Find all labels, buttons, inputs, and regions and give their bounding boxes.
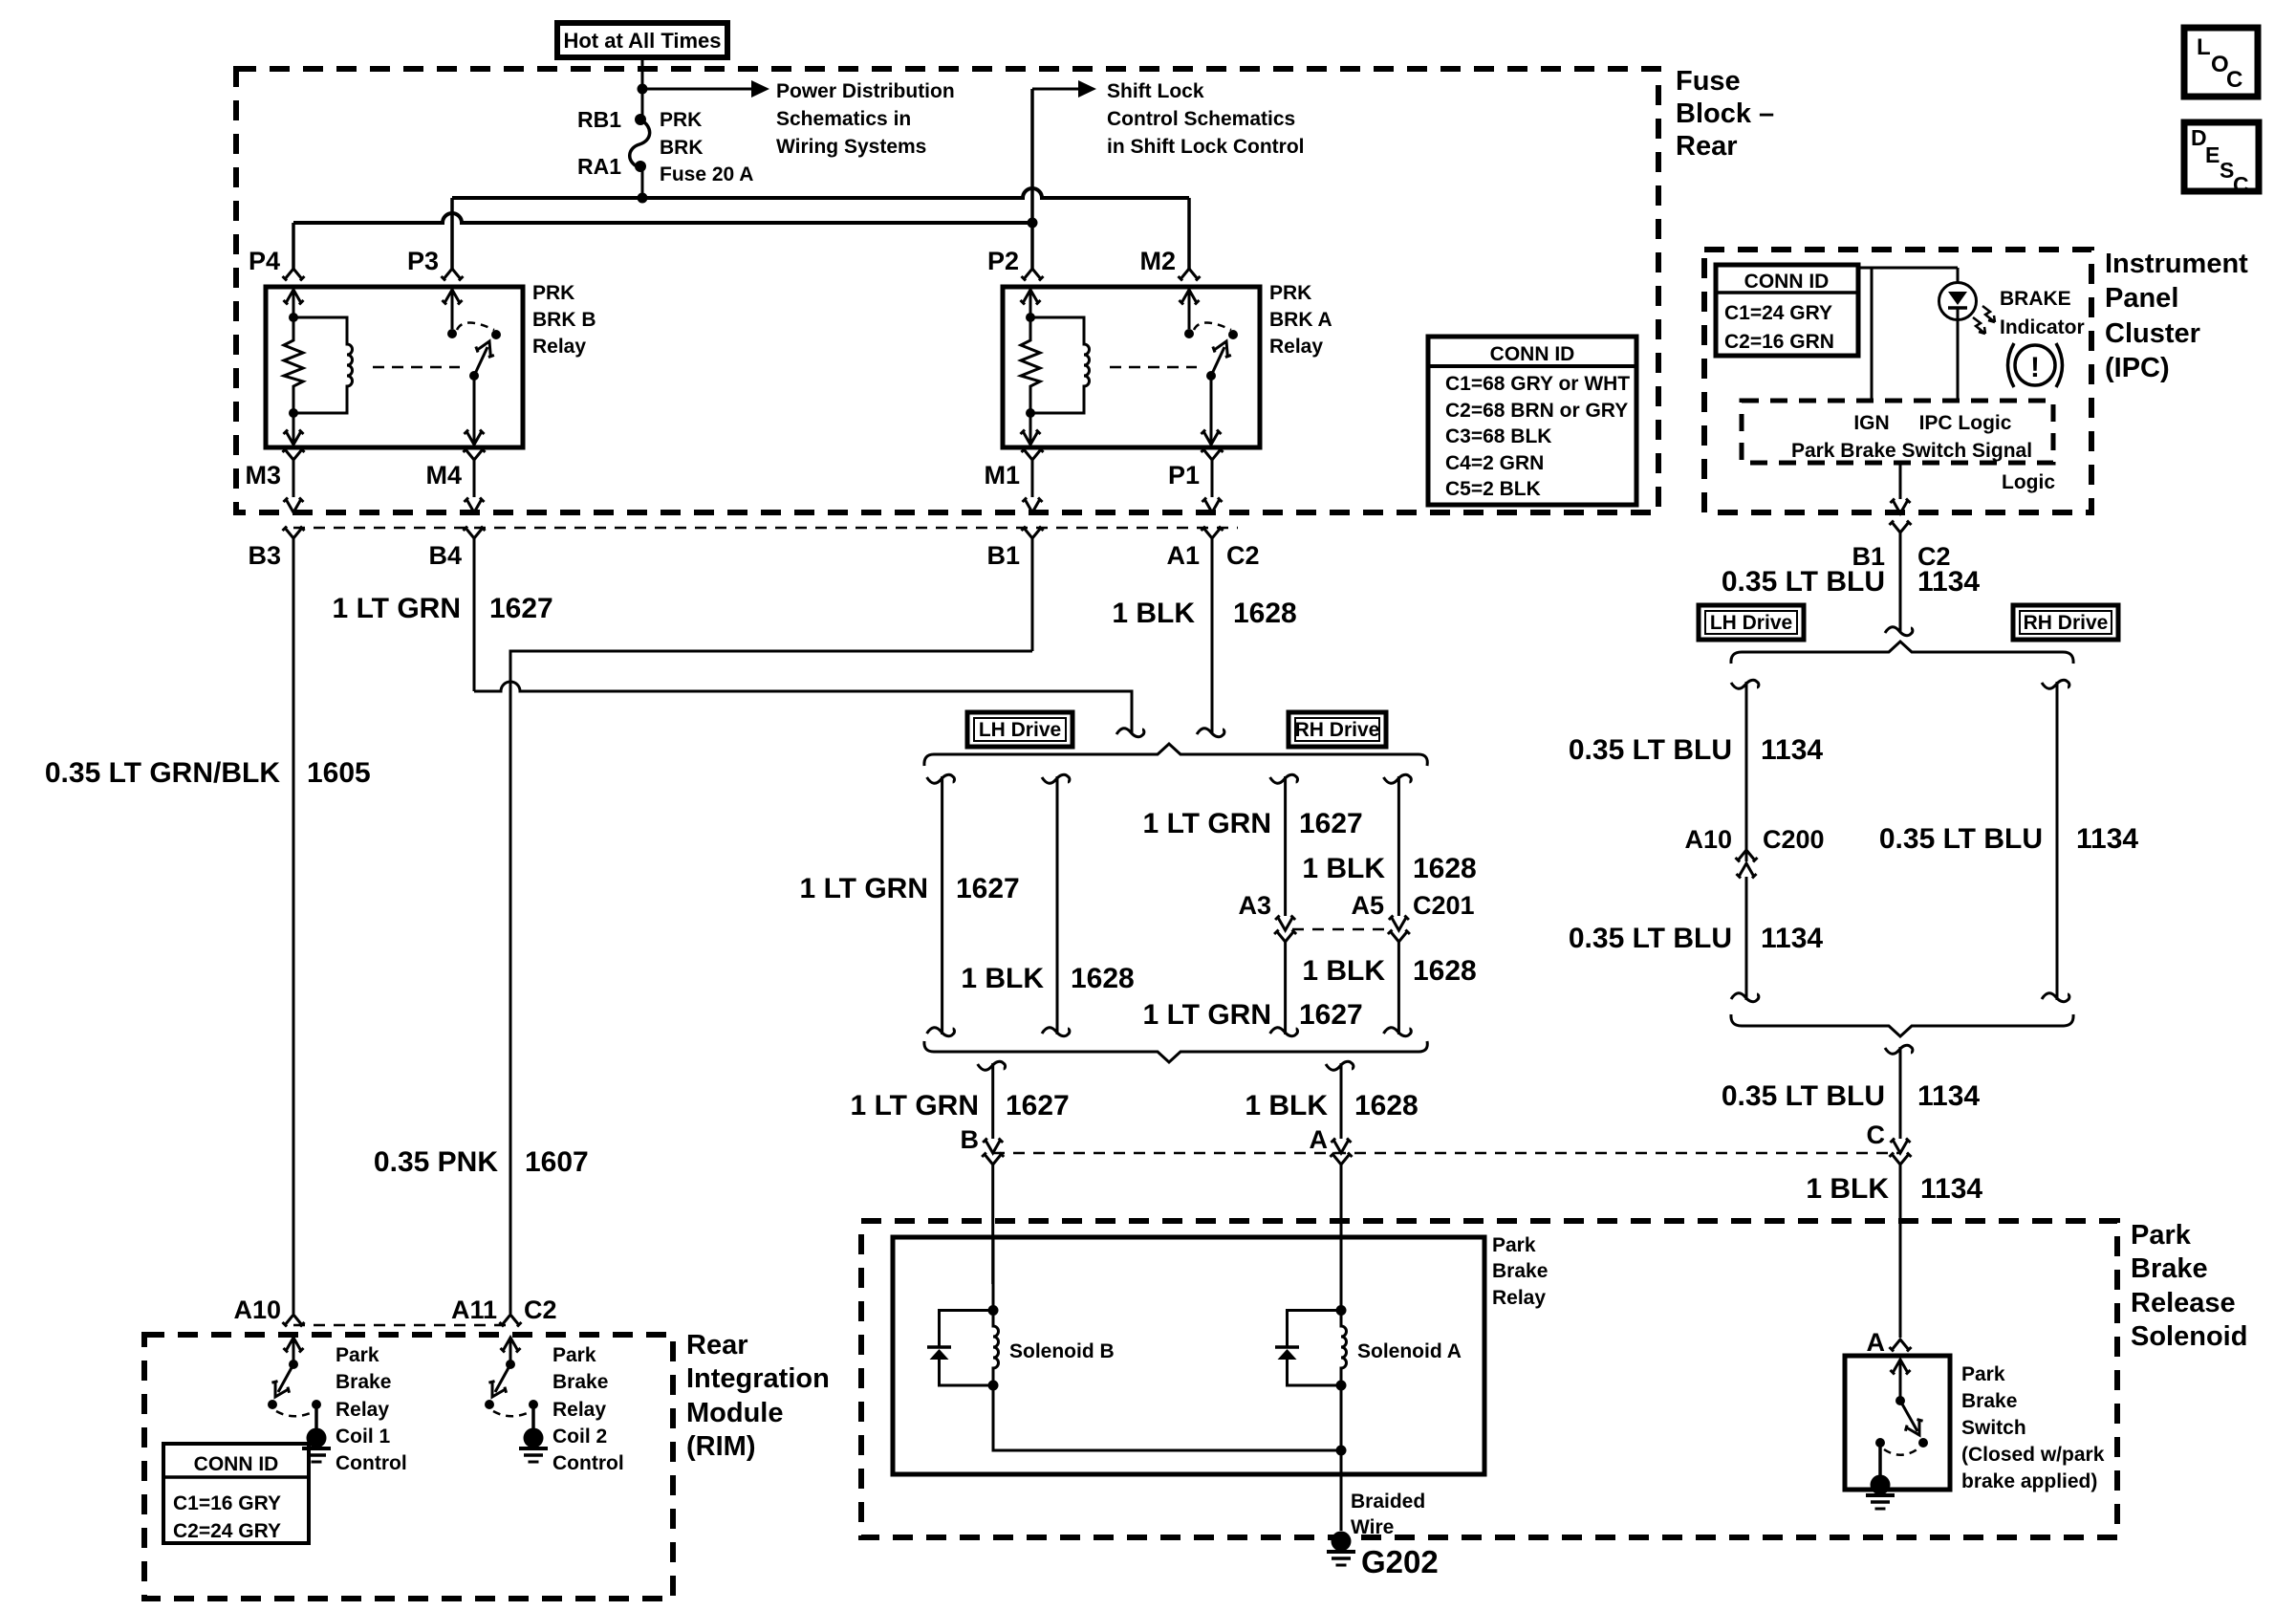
svg-text:Relay: Relay [336,1399,389,1421]
splice output B wire 1627 [978,1061,1006,1070]
svg-text:1628: 1628 [1071,963,1135,994]
svg-text:1627: 1627 [1299,808,1363,839]
svg-text:B: B [961,1125,980,1154]
svg-text:Module: Module [686,1398,784,1428]
svg-text:Shift Lock: Shift Lock [1107,80,1204,102]
connector B1 [1022,527,1044,539]
svg-text:Release: Release [2131,1288,2236,1318]
connector P2 [1022,269,1044,281]
svg-text:0.35 PNK: 0.35 PNK [374,1146,498,1178]
relay PRK BRK B fixed contact [447,329,457,338]
svg-text:RH Drive: RH Drive [1295,719,1380,741]
wire: hot feed down from Hot at All Times [641,57,644,117]
svg-text:1134: 1134 [1917,1080,1980,1112]
svg-text:1 LT GRN: 1 LT GRN [1143,999,1271,1031]
connector B4 [464,527,486,539]
relay PRK BRK A armature link (dashed) [1110,366,1197,369]
svg-text:C2=68 BRN or GRY: C2=68 BRN or GRY [1445,400,1628,422]
wire 1627: B4 down [473,538,476,691]
svg-text:1 LT GRN: 1 LT GRN [1143,808,1271,839]
svg-text:CONN ID: CONN ID [1490,343,1575,365]
svg-text:L: L [2197,34,2211,60]
svg-text:C2=16 GRN: C2=16 GRN [1724,331,1834,353]
svg-text:C1=68 GRY or WHT: C1=68 GRY or WHT [1445,373,1630,395]
connector M1 [1022,448,1044,461]
svg-text:(Closed w/park: (Closed w/park [1961,1444,2105,1466]
svg-text:A5: A5 [1351,891,1384,920]
relay PRK BRK B arm pivot [469,371,479,381]
connector M2 [1179,269,1201,281]
svg-text:Brake: Brake [336,1371,391,1393]
right splice wire RH 1134 [2042,680,2069,688]
svg-text:1 LT GRN: 1 LT GRN [851,1090,979,1121]
wire: lamp to IPC logic [1957,308,1960,401]
svg-text:1627: 1627 [1006,1090,1070,1121]
svg-text:LH Drive: LH Drive [1710,612,1792,634]
wire 1628: P1 down to RH splice feed [1211,538,1214,734]
svg-text:BRAKE: BRAKE [2000,288,2071,310]
svg-text:Fuse: Fuse [1676,66,1741,97]
svg-text:Brake: Brake [2131,1253,2208,1284]
svg-text:0.35 LT BLU: 0.35 LT BLU [1722,566,1885,598]
svg-text:RH Drive: RH Drive [2024,612,2109,634]
relay PRK BRK A coil-side exit pin [1021,430,1041,446]
svg-text:1627: 1627 [489,593,553,624]
right splice top brace [1742,642,2063,652]
wire 1627: B4 across to LH splice feed [474,682,1132,734]
svg-text:!: ! [2030,352,2040,383]
svg-text:1 BLK: 1 BLK [1302,955,1385,987]
splice wire seg LH 1628 [1042,774,1070,783]
wire: IPC internal feed [1858,267,1958,270]
relay PRK BRK A contact-side entry pin [1180,290,1200,305]
fuse RB1 terminal [635,114,646,125]
svg-text:P3: P3 [407,247,439,275]
svg-text:Relay: Relay [532,336,586,358]
park brake switch arm [1900,1401,1917,1431]
connector B3 [283,527,305,539]
svg-text:A11: A11 [451,1295,497,1324]
RH Drive variant box (right) [2013,605,2118,640]
svg-text:B4: B4 [428,541,462,570]
CONN ID table (IPC) [1716,265,1858,356]
wire: fuse output down [641,165,644,198]
wire 1134: C down to park brake switch [1885,1045,1913,1054]
svg-text:C1=16 GRY: C1=16 GRY [173,1492,281,1514]
svg-text:Wire: Wire [1351,1516,1394,1538]
wire 1607: B1 down [1031,538,1034,651]
svg-text:Braided: Braided [1351,1491,1425,1513]
relay PRK BRK A fixed contact [1184,329,1194,338]
svg-text:Rear: Rear [1676,131,1738,162]
svg-text:1134: 1134 [1917,566,1980,598]
CONN ID table (fuse block rear) [1428,337,1636,505]
wire 1605: B3 to RIM A10 [292,538,295,1314]
connector P4 [283,269,305,281]
svg-text:RB1: RB1 [577,107,621,132]
svg-text:A3: A3 [1238,891,1271,920]
relay PRK BRK A coil-side entry pin [1021,290,1041,305]
svg-text:C2: C2 [1226,541,1260,570]
splice wire seg LH 1627 [927,774,955,783]
svg-text:IPC Logic: IPC Logic [1919,412,2012,434]
relay PRK BRK A contact-side exit pin [1202,430,1222,446]
relay PRK BRK B NO contact [491,330,501,339]
svg-text:C2=24 GRY: C2=24 GRY [173,1520,281,1542]
wire: braided ground wire [1340,1385,1343,1531]
svg-text:Park: Park [336,1344,379,1366]
svg-text:Hot at All Times: Hot at All Times [563,29,721,53]
svg-text:PRK: PRK [1269,282,1311,304]
svg-text:Brake: Brake [552,1371,608,1393]
svg-text:P1: P1 [1168,461,1200,490]
svg-text:A: A [1310,1125,1329,1154]
Instrument Panel Cluster dashed boundary [1704,250,2091,512]
svg-text:C: C [2226,67,2242,93]
svg-text:0.35 LT GRN/BLK: 0.35 LT GRN/BLK [45,757,280,789]
svg-text:1134: 1134 [1920,1173,1982,1205]
svg-text:Integration: Integration [686,1363,830,1394]
svg-text:M3: M3 [245,461,281,490]
RH Drive variant box (center) [1289,712,1386,747]
node: hot feed junction [638,84,648,95]
splice group top brace [934,744,1419,754]
svg-text:Switch: Switch [1961,1417,2026,1439]
svg-text:Brake: Brake [1961,1390,2017,1412]
svg-text:1 BLK: 1 BLK [1302,853,1385,884]
svg-text:Solenoid A: Solenoid A [1357,1340,1462,1362]
relay PRK BRK B contact-side entry pin [443,290,463,305]
fuse RA1 terminal [635,161,646,172]
DESC reference box [2184,122,2259,191]
svg-text:1627: 1627 [956,873,1020,904]
node: line2 meets shift-lock vertical [1028,218,1038,229]
wire: park brake switch signal out [1899,463,1902,499]
relay PRK BRK B coil top node [289,313,298,322]
svg-text:Block –: Block – [1676,98,1774,129]
flyback diode (Solenoid A) [1288,1311,1342,1347]
connector A1 [1202,527,1224,539]
svg-text:Solenoid B: Solenoid B [1009,1340,1115,1362]
svg-text:0.35 LT BLU: 0.35 LT BLU [1569,923,1732,954]
park brake relay coil 2 control switch [501,1338,521,1353]
relay PRK BRK A coil top node [1026,313,1035,322]
relay PRK BRK A coil bottom node [1026,408,1035,418]
connector A11 C2 [500,1315,522,1327]
svg-text:BRK B: BRK B [532,309,596,331]
LOC reference box [2184,28,2258,97]
connector M4 [464,448,486,461]
splice wire seg RH 1627 through C201 A3 [1270,774,1298,783]
wire: drop to P4 [292,223,295,269]
connector P3 [442,269,464,281]
wire 1607: across and down to RIM A11 [510,651,1032,1314]
svg-text:Coil 2: Coil 2 [552,1426,607,1448]
relay PRK BRK A coil [1030,317,1090,413]
relay PRK BRK B coil-side entry pin [284,290,304,305]
svg-text:1 BLK: 1 BLK [1112,598,1195,629]
power label box: Hot at All Times [557,23,727,57]
relay PRK BRK B box [266,287,523,447]
svg-text:BRK A: BRK A [1269,309,1332,331]
svg-text:Rear: Rear [686,1330,748,1361]
relay PRK BRK B contact travel (dashed) [457,323,494,331]
svg-text:Park: Park [2131,1220,2192,1251]
fuse PRK BRK 20A element [630,120,650,167]
svg-text:A1: A1 [1166,541,1200,570]
svg-text:PRK: PRK [660,109,702,131]
relay PRK BRK A NO contact [1228,330,1238,339]
svg-text:0.35 LT BLU: 0.35 LT BLU [1722,1080,1885,1112]
svg-text:1 BLK: 1 BLK [1806,1173,1889,1205]
park brake switch input pin [1891,1360,1911,1375]
Rear Integration Module dashed boundary [144,1335,673,1599]
indicator light rays [1982,306,1995,322]
svg-text:CONN ID: CONN ID [194,1453,279,1475]
svg-text:G202: G202 [1361,1544,1439,1579]
node: solenoid common [1336,1446,1347,1456]
wire: shift-lock vertical through hop to P2 [1030,89,1034,269]
svg-text:Panel: Panel [2105,283,2178,314]
svg-text:Fuse 20 A: Fuse 20 A [660,163,753,185]
svg-text:Solenoid: Solenoid [2131,1321,2247,1352]
svg-text:1134: 1134 [1761,734,1823,766]
svg-text:Park: Park [1492,1234,1536,1256]
splice feed tail (RH) [1197,729,1224,737]
relay PRK BRK A resistor [1021,317,1040,413]
wire: branch to Power Distribution schematics [642,88,751,91]
splice output A wire 1628 [1326,1061,1354,1070]
relay PRK BRK B coil-side exit pin [284,430,304,446]
svg-text:C: C [2233,172,2249,197]
svg-text:E: E [2205,142,2220,167]
switch internal ground [1866,1475,1895,1510]
svg-text:A10: A10 [1684,825,1732,854]
Park Brake Release Solenoid dashed boundary [861,1221,2117,1537]
svg-text:A10: A10 [233,1295,281,1324]
wire: drop to P3 [450,198,454,269]
svg-text:1628: 1628 [1354,1090,1419,1121]
svg-text:Logic: Logic [2002,471,2055,493]
svg-text:M2: M2 [1139,247,1176,275]
splice group bottom brace [934,1052,1419,1062]
relay PRK BRK A switch arm [1211,347,1224,376]
relay PRK BRK B contact-side exit pin [465,430,485,446]
right splice bottom brace [1742,1026,2063,1036]
svg-text:Schematics in: Schematics in [776,108,911,130]
wire bus line1: fuse to P3 and M2 [452,188,1189,198]
connector face line (RIM C2) [293,1324,510,1327]
wire: solenoid commons joined [993,1385,1341,1450]
park brake switch pivot [1895,1396,1905,1405]
svg-text:LH Drive: LH Drive [979,719,1061,741]
relay PRK BRK B coil bottom node [289,408,298,418]
svg-text:in Shift Lock Control: in Shift Lock Control [1107,136,1304,158]
connector M3 [283,448,305,461]
svg-text:Park Brake Switch Signal: Park Brake Switch Signal [1791,440,2032,462]
wire bus line2: P4 to P2/shift-lock branch [293,213,1029,223]
connector face line C201 (dashed) [1292,928,1392,931]
svg-text:1 BLK: 1 BLK [961,963,1044,994]
IPC logic dashed box [1742,401,2053,463]
connector A10 [283,1315,305,1327]
Park Brake Relay solid box [893,1237,1484,1474]
svg-text:C2: C2 [524,1295,557,1324]
solenoid Solenoid B [992,1237,995,1310]
CONN ID table (RIM) [163,1444,309,1543]
connector face line (park brake relay) [993,1152,1900,1155]
switch travel (dashed) [1884,1448,1918,1455]
Fuse Block - Rear dashed boundary [236,69,1658,512]
svg-text:1 LT GRN: 1 LT GRN [800,873,928,904]
svg-text:C: C [1867,1121,1886,1149]
svg-text:0.35 LT BLU: 0.35 LT BLU [1879,823,2043,855]
svg-text:Instrument: Instrument [2105,249,2248,279]
svg-text:Coil 1: Coil 1 [336,1426,390,1448]
Park Brake Switch box [1845,1356,1950,1490]
svg-text:Relay: Relay [1492,1287,1546,1309]
svg-text:M1: M1 [984,461,1020,490]
svg-text:C3=68 BLK: C3=68 BLK [1445,425,1551,447]
relay PRK BRK B coil [293,317,353,413]
LH Drive variant box (right) [1699,605,1804,640]
right splice wire LH 1134 through C200 A10 [1731,680,1759,688]
svg-text:1 LT GRN: 1 LT GRN [333,593,461,624]
svg-text:1627: 1627 [1299,999,1363,1031]
svg-text:B1: B1 [986,541,1020,570]
svg-text:C201: C201 [1413,891,1475,920]
park brake relay coil 1 control switch [284,1338,304,1353]
svg-text:Park: Park [552,1344,596,1366]
node: fuse output on bus line 1 [638,193,648,204]
splice feed tail (LH) [1116,729,1144,737]
svg-text:Cluster: Cluster [2105,318,2200,349]
svg-text:Indicator: Indicator [2000,316,2085,338]
connector A (park brake switch) [1890,1339,1912,1352]
svg-text:P2: P2 [987,247,1019,275]
svg-text:BRK: BRK [660,137,704,159]
svg-text:brake applied): brake applied) [1961,1470,2097,1492]
svg-text:Relay: Relay [552,1399,606,1421]
svg-text:1 BLK: 1 BLK [1245,1090,1328,1121]
svg-text:C4=2 GRN: C4=2 GRN [1445,452,1544,474]
wire: IGN feed [1871,268,1874,401]
svg-text:1628: 1628 [1413,853,1477,884]
svg-text:Control Schematics: Control Schematics [1107,108,1295,130]
relay PRK BRK A arm pivot [1206,371,1216,381]
svg-text:Brake: Brake [1492,1260,1548,1282]
svg-text:Wiring Systems: Wiring Systems [776,136,926,158]
svg-text:Control: Control [336,1452,407,1474]
svg-text:A: A [1867,1328,1886,1357]
BRAKE indicator LED [1939,283,1977,320]
svg-text:Power Distribution: Power Distribution [776,80,955,102]
svg-text:C1=24 GRY: C1=24 GRY [1724,302,1832,324]
solenoid Solenoid A [1340,1237,1343,1310]
svg-text:C5=2 BLK: C5=2 BLK [1445,478,1541,500]
relay PRK BRK A box [1003,287,1260,447]
wire: drop to M2 [1187,198,1191,269]
svg-text:1134: 1134 [2076,823,2138,855]
LH Drive variant box (center) [967,712,1072,747]
svg-text:Control: Control [552,1452,624,1474]
svg-text:P4: P4 [249,247,280,275]
ground G202 [1327,1532,1355,1566]
relay PRK BRK B armature link (dashed) [373,366,460,369]
svg-text:1607: 1607 [525,1146,589,1178]
svg-text:IGN: IGN [1853,412,1889,434]
svg-text:M4: M4 [425,461,462,490]
brake warning icon ((!)) [2015,345,2055,385]
svg-text:(RIM): (RIM) [686,1431,755,1462]
svg-text:B3: B3 [248,541,281,570]
wire 1134: IPC to splice [1899,533,1902,633]
svg-text:1605: 1605 [307,757,371,789]
svg-text:Park: Park [1961,1363,2005,1385]
svg-text:C200: C200 [1763,825,1825,854]
svg-text:1628: 1628 [1233,598,1297,629]
svg-text:RA1: RA1 [577,154,621,179]
relay PRK BRK B resistor [284,317,303,413]
svg-text:PRK: PRK [532,282,574,304]
svg-text:CONN ID: CONN ID [1744,271,1830,293]
svg-text:1134: 1134 [1761,923,1823,954]
connector P1 [1202,448,1224,461]
svg-text:1628: 1628 [1413,955,1477,987]
splice wire seg RH 1628 through C201 A5 [1383,774,1411,783]
wire: branch to Shift Lock Control schematics [1032,88,1078,91]
relay PRK BRK A contact travel (dashed) [1194,323,1231,331]
svg-text:Relay: Relay [1269,336,1323,358]
connector face line C (fuse block bottom) [293,527,1238,530]
svg-text:(IPC): (IPC) [2105,353,2170,383]
relay PRK BRK B switch arm [474,347,487,376]
flyback diode (Solenoid B) [940,1311,994,1347]
wire: to brake indicator lamp [1957,268,1960,284]
park brake switch ground contact [1875,1438,1885,1448]
svg-text:0.35 LT BLU: 0.35 LT BLU [1569,734,1732,766]
park brake switch NO contact [1918,1438,1928,1448]
connector B1 C2 (IPC) [1890,521,1912,533]
